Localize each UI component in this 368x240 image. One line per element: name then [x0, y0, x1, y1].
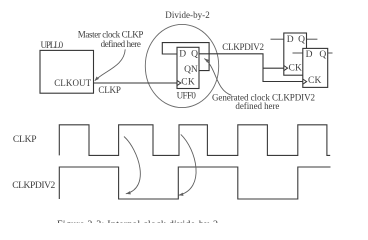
clock triangle back FF [284, 66, 288, 71]
svg-text:CLKPDIV2: CLKPDIV2 [12, 181, 55, 191]
svg-text:UPLL0: UPLL0 [41, 40, 64, 50]
svg-text:CLKOUT: CLKOUT [54, 78, 91, 88]
svg-text:CK: CK [308, 76, 322, 86]
svg-text:Q: Q [298, 35, 305, 45]
svg-text:D: D [306, 50, 313, 60]
wire branch to back FF CK [263, 67, 284, 69]
svg-text:defined here: defined here [235, 101, 279, 111]
wire D stub back FF [271, 38, 284, 40]
annotation arrow to Q of UFF0 [204, 59, 231, 96]
svg-text:Figure 2-3: Internal clock div: Figure 2-3: Internal clock divide-by-2 [57, 220, 218, 224]
svg-text:QN: QN [184, 65, 198, 75]
wire feedback QN to D [162, 43, 209, 71]
annotation arrow to CLKOUT [95, 49, 125, 80]
wire D stub front FF [293, 52, 303, 54]
wire Q stub back FF [307, 38, 318, 40]
wire Q stub front FF [328, 52, 333, 54]
svg-text:CLKP: CLKP [13, 135, 37, 145]
flip-flop UFF0 [177, 47, 199, 88]
arrow CLKP edge to CLKPDIV2 fall [124, 137, 140, 194]
svg-text:Divide-by-2: Divide-by-2 [165, 10, 209, 20]
svg-text:UFF0: UFF0 [177, 91, 197, 101]
clock triangle UFF0 [177, 80, 181, 85]
svg-text:CK: CK [181, 78, 195, 88]
svg-text:Q: Q [319, 50, 326, 60]
svg-text:CLKPDIV2: CLKPDIV2 [222, 42, 264, 52]
svg-text:CLKP: CLKP [98, 85, 121, 95]
clock triangle front FF [303, 79, 307, 84]
svg-text:Q: Q [191, 50, 198, 60]
flip-flop back (right bank) [271, 33, 318, 75]
svg-text:CK: CK [289, 64, 303, 74]
svg-text:Master clock CLKP: Master clock CLKP [78, 30, 144, 40]
ellipse Divide-by-2 [145, 24, 218, 107]
waveform CLKPDIV2 [59, 167, 330, 199]
wire Q output CLKPDIV2 [199, 54, 303, 82]
waveform CLKP [59, 125, 330, 156]
PLL block UPLL0 [40, 50, 94, 93]
flip-flop front (right bank) [293, 48, 333, 87]
wire CLKP [94, 82, 178, 84]
svg-text:defined here: defined here [101, 39, 141, 49]
arrow CLKP edge to CLKPDIV2 rise [179, 134, 197, 195]
svg-text:D: D [287, 35, 294, 45]
svg-text:D: D [179, 50, 186, 60]
